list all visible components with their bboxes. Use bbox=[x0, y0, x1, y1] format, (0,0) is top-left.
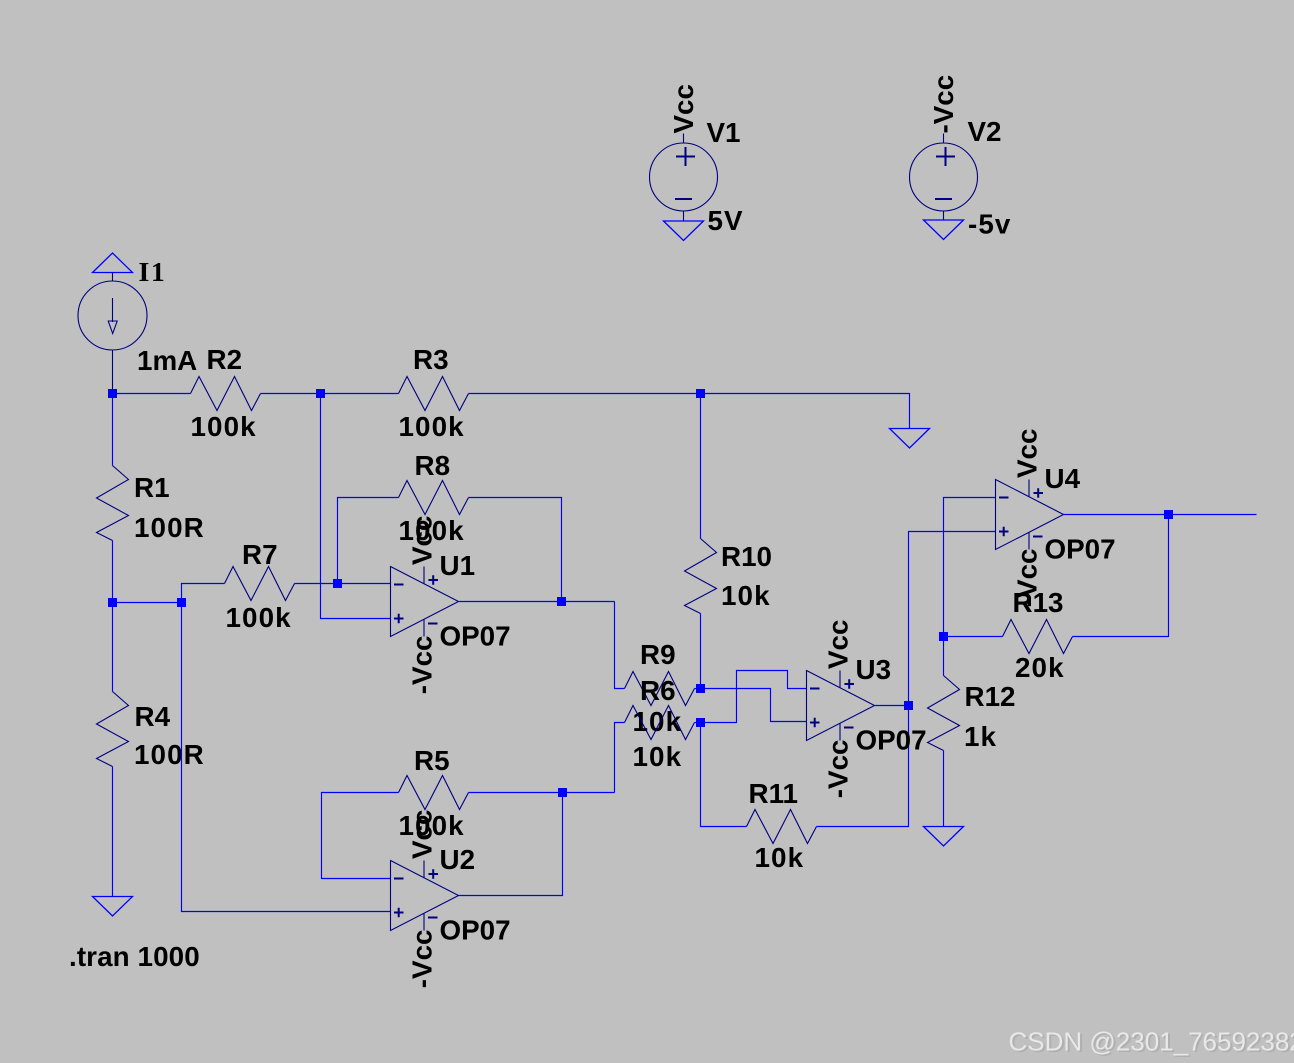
svg-text:R2: R2 bbox=[207, 344, 243, 375]
svg-text:Vcc: Vcc bbox=[407, 516, 438, 565]
svg-text:OP07: OP07 bbox=[440, 915, 511, 946]
svg-text:R3: R3 bbox=[413, 344, 449, 375]
ground under V2 bbox=[924, 220, 964, 240]
resistor R4 bbox=[97, 692, 205, 771]
wire R13 right up to U4 output node bbox=[1073, 515, 1169, 637]
svg-text:1mA: 1mA bbox=[137, 345, 197, 376]
svg-text:100R: 100R bbox=[134, 739, 205, 770]
svg-text:-Vcc: -Vcc bbox=[928, 75, 959, 134]
svg-text:10k: 10k bbox=[633, 706, 683, 737]
svg-text:Vcc: Vcc bbox=[823, 620, 854, 669]
svg-text:V2: V2 bbox=[968, 116, 1002, 147]
resistor R5 bbox=[399, 745, 469, 841]
svg-text:R4: R4 bbox=[135, 701, 171, 732]
wire R10 top lead from R3 node bbox=[700, 394, 702, 539]
svg-text:R5: R5 bbox=[414, 745, 450, 776]
wire R3 to ground corner bbox=[469, 394, 910, 429]
node divider-R7 bbox=[177, 598, 186, 607]
wire divider node down to U2 plus input bbox=[182, 603, 391, 912]
voltage source V2 bbox=[910, 75, 1012, 240]
node U3 output bbox=[904, 701, 913, 710]
svg-text:OP07: OP07 bbox=[856, 725, 927, 756]
svg-text:100k: 100k bbox=[191, 411, 257, 442]
svg-text:V1: V1 bbox=[707, 117, 741, 148]
wire node A to U3 plus input bbox=[701, 689, 807, 722]
wire U3 output to node bbox=[875, 705, 909, 707]
svg-text:10k: 10k bbox=[755, 842, 805, 873]
wire U1 output to corner bbox=[459, 601, 615, 603]
voltage source V1 bbox=[650, 84, 744, 236]
wire node B to U3 minus input bbox=[701, 671, 807, 723]
node I1-R2-R1 bbox=[108, 389, 117, 398]
wire corner up to R6 bbox=[615, 723, 625, 793]
resistor R6 bbox=[625, 675, 695, 772]
wire R10 bottom to node A bbox=[700, 614, 702, 689]
wire R7 left lead bbox=[182, 584, 225, 603]
svg-text:R9: R9 bbox=[640, 639, 676, 670]
svg-text:U1: U1 bbox=[440, 550, 476, 581]
resistor R11 bbox=[747, 778, 817, 873]
svg-text:100k: 100k bbox=[226, 602, 292, 633]
ground under R12 bbox=[924, 827, 964, 847]
svg-text:.tran 1000: .tran 1000 bbox=[69, 941, 200, 972]
svg-text:R6: R6 bbox=[640, 675, 676, 706]
svg-text:R10: R10 bbox=[721, 541, 772, 572]
resistor R13 bbox=[1003, 587, 1073, 683]
wire R12 bottom to ground bbox=[943, 751, 945, 827]
spice directive .tran 1000 bbox=[69, 941, 200, 972]
wire R2 to node B1 bbox=[261, 393, 321, 395]
current source I1 bbox=[78, 257, 197, 392]
wire node B1 down to U1 plus input bbox=[321, 394, 391, 619]
wire node B down to R11 bbox=[701, 723, 747, 827]
wire node to R13 bbox=[944, 636, 1003, 638]
wire R13 node up to U4 minus input bbox=[944, 498, 996, 637]
svg-text:R12: R12 bbox=[965, 681, 1016, 712]
op-amp U3 bbox=[807, 620, 927, 799]
wire I1 to R2 bbox=[113, 393, 191, 395]
node R2-R3 bbox=[316, 389, 325, 398]
wire U1 minus node up to R8 bbox=[338, 498, 399, 584]
wire node down to R12 bbox=[943, 637, 945, 676]
wire R6 to node B bbox=[695, 722, 701, 724]
svg-text:R8: R8 bbox=[415, 450, 451, 481]
svg-text:U2: U2 bbox=[440, 844, 476, 875]
wire U4 output bbox=[1064, 514, 1257, 516]
node U1 inverting bbox=[333, 579, 342, 588]
resistor R2 bbox=[191, 344, 261, 442]
svg-text:I1: I1 bbox=[139, 257, 167, 288]
svg-text:U4: U4 bbox=[1045, 463, 1081, 494]
svg-text:R7: R7 bbox=[242, 539, 278, 570]
svg-text:-Vcc: -Vcc bbox=[823, 740, 854, 799]
wire node to U1 minus input bbox=[338, 583, 391, 585]
resistor R1 bbox=[97, 466, 205, 544]
svg-text:Vcc: Vcc bbox=[407, 810, 438, 859]
svg-text:R11: R11 bbox=[749, 778, 798, 809]
svg-text:-Vcc: -Vcc bbox=[1012, 549, 1043, 608]
wire node B1 to R3 bbox=[321, 393, 399, 395]
resistor R7 bbox=[225, 539, 295, 633]
svg-text:20k: 20k bbox=[1015, 652, 1065, 683]
wire divider node to R7 node bbox=[113, 602, 182, 604]
op-amp U1 bbox=[391, 516, 511, 695]
svg-text:5V: 5V bbox=[708, 205, 744, 236]
wire R9 to node A bbox=[695, 688, 701, 690]
ground under V1 bbox=[664, 221, 704, 241]
svg-text:-5v: -5v bbox=[968, 209, 1011, 240]
resistor R10 bbox=[685, 539, 773, 614]
node A R9-R10 bbox=[696, 684, 705, 693]
svg-text:U3: U3 bbox=[856, 654, 892, 685]
svg-text:OP07: OP07 bbox=[440, 621, 511, 652]
op-amp U2 bbox=[391, 810, 511, 989]
node U1 output bbox=[557, 597, 566, 606]
wire I1 node down to R1 bbox=[112, 394, 114, 466]
resistor R8 bbox=[399, 450, 469, 546]
svg-text:Vcc: Vcc bbox=[668, 84, 699, 133]
wire U2 output up to R5 node bbox=[459, 793, 563, 896]
node R12-R13 bbox=[939, 632, 948, 641]
svg-text:-Vcc: -Vcc bbox=[407, 930, 438, 989]
node R3-R10 bbox=[696, 389, 705, 398]
wire R5 right to R6 corner bbox=[469, 792, 615, 794]
wire divider node down to R4 bbox=[112, 603, 114, 692]
node U2 output bbox=[558, 788, 567, 797]
wire R5 left lead to U2 minus input bbox=[322, 793, 399, 879]
wire corner down to R9 bbox=[615, 602, 625, 689]
wire R11 right up to U3 output node bbox=[817, 706, 909, 827]
node U4 output bbox=[1164, 510, 1173, 519]
svg-text:10k: 10k bbox=[721, 580, 771, 611]
wire R4 to ground bbox=[112, 767, 114, 897]
svg-text:CSDN @2301_76592382: CSDN @2301_76592382 bbox=[1009, 1026, 1294, 1056]
svg-text:1k: 1k bbox=[964, 721, 997, 752]
watermark CSDN bbox=[1009, 1026, 1294, 1058]
resistor R9 bbox=[625, 639, 695, 737]
svg-text:-Vcc: -Vcc bbox=[407, 636, 438, 695]
svg-text:100k: 100k bbox=[399, 411, 465, 442]
wire R8 down to U1 output node bbox=[469, 498, 562, 602]
svg-text:10k: 10k bbox=[633, 741, 683, 772]
ground under R4 bbox=[93, 897, 133, 917]
resistor R3 bbox=[399, 344, 469, 442]
op-amp U4 bbox=[996, 429, 1116, 608]
wire U3 node up to U4 plus input bbox=[909, 532, 996, 706]
node R1-R4 divider bbox=[108, 598, 117, 607]
svg-text:OP07: OP07 bbox=[1045, 534, 1116, 565]
resistor R12 bbox=[928, 676, 1016, 753]
ground flipped on I1 top bbox=[93, 253, 133, 273]
node B R6-R11 bbox=[696, 718, 705, 727]
svg-text:R1: R1 bbox=[134, 472, 170, 503]
svg-text:Vcc: Vcc bbox=[1012, 429, 1043, 478]
svg-text:100R: 100R bbox=[134, 512, 205, 543]
wire R7 to U1 inverting node bbox=[295, 583, 338, 585]
wire R1 to divider node bbox=[112, 541, 114, 603]
ground at R3 right bbox=[890, 429, 930, 449]
